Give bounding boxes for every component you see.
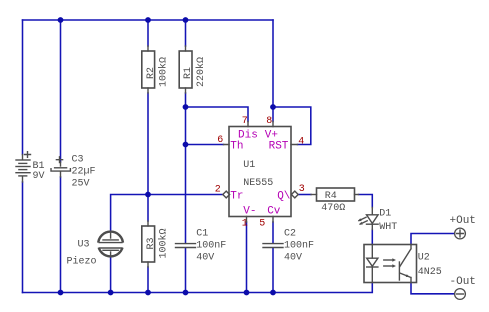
pin bubble Tr pin2 xyxy=(223,191,230,198)
junction dot V+ pin8 xyxy=(270,104,276,110)
svg-text:-Out: -Out xyxy=(450,276,476,288)
wire R2 bottom to Tr node xyxy=(147,93,149,195)
wire R1 column top xyxy=(185,20,187,46)
svg-text:100kΩ: 100kΩ xyxy=(158,57,170,87)
svg-text:4N25: 4N25 xyxy=(418,267,442,278)
svg-text:U1: U1 xyxy=(243,160,255,171)
svg-text:9V: 9V xyxy=(33,171,45,182)
wire C3 column bottom xyxy=(60,177,62,293)
svg-text:25V: 25V xyxy=(72,179,90,190)
svg-text:100nF: 100nF xyxy=(284,241,314,252)
wire R2 column top xyxy=(147,20,149,46)
svg-text:NE555: NE555 xyxy=(243,178,273,189)
wire Q out to R4 xyxy=(299,194,312,196)
svg-text:RST: RST xyxy=(269,141,289,153)
svg-text:R2: R2 xyxy=(146,67,157,79)
wire R1 bottom to C1 xyxy=(185,93,187,243)
wire left rail upper (battery top) xyxy=(22,20,24,155)
wire Th net xyxy=(186,144,224,146)
wire C2 bottom lead xyxy=(272,249,274,293)
wire C1 bottom lead xyxy=(185,249,187,293)
svg-text:Tr: Tr xyxy=(230,191,243,203)
junction dot ground R3 xyxy=(145,290,151,296)
svg-text:40V: 40V xyxy=(284,253,302,264)
svg-text:7: 7 xyxy=(242,116,248,127)
svg-text:V-: V- xyxy=(243,205,256,217)
svg-text:Q\: Q\ xyxy=(277,191,290,203)
capacitor C1 xyxy=(176,244,196,248)
junction dot top rail C3 xyxy=(58,17,64,23)
svg-text:5: 5 xyxy=(259,219,265,230)
svg-text:4: 4 xyxy=(298,137,304,148)
resistor R2 xyxy=(142,46,155,93)
terminal +Out xyxy=(455,228,466,239)
svg-text:R3: R3 xyxy=(146,237,157,249)
svg-text:8: 8 xyxy=(266,116,272,127)
svg-text:D1: D1 xyxy=(379,209,391,220)
wire piezo bottom xyxy=(110,258,112,293)
resistor R3 xyxy=(142,221,155,267)
wire C3 column top xyxy=(60,20,62,162)
resistor R1 xyxy=(179,46,192,93)
wire R4 to D1 xyxy=(359,195,373,208)
wire pin5 Cv to C2 xyxy=(272,222,274,243)
svg-text:U2: U2 xyxy=(418,253,430,264)
junction dot Th / R1 xyxy=(183,142,189,148)
svg-text:C2: C2 xyxy=(284,229,296,240)
junction dot top rail R2 xyxy=(145,17,151,23)
svg-text:22µF: 22µF xyxy=(72,167,96,178)
svg-text:3: 3 xyxy=(299,184,305,195)
wire D1 cathode to opto xyxy=(371,230,373,245)
svg-text:2: 2 xyxy=(215,185,221,196)
piezo U3 xyxy=(97,232,125,257)
wire pin1 V- to ground xyxy=(246,222,248,293)
svg-text:R1: R1 xyxy=(183,67,194,79)
wire R3 top lead xyxy=(147,195,149,222)
junction dot ground C2 xyxy=(270,290,276,296)
svg-text:R4: R4 xyxy=(325,191,337,202)
wire top rail xyxy=(23,19,274,21)
wire opto collector to +Out xyxy=(411,234,454,245)
svg-text:470Ω: 470Ω xyxy=(321,203,345,214)
battery B1 xyxy=(16,152,31,182)
junction dot ground C3 xyxy=(58,290,64,296)
svg-text:100nF: 100nF xyxy=(196,241,226,252)
LED D1 xyxy=(358,208,378,230)
junction dot ground pin1 xyxy=(244,290,250,296)
svg-text:C3: C3 xyxy=(72,155,84,166)
wire Tr net xyxy=(111,195,223,231)
svg-text:U3: U3 xyxy=(78,240,90,251)
svg-text:40V: 40V xyxy=(196,253,214,264)
svg-text:Dis: Dis xyxy=(238,129,258,141)
wire Dis net xyxy=(186,107,249,122)
svg-text:6: 6 xyxy=(217,135,223,146)
svg-text:Piezo: Piezo xyxy=(67,256,97,268)
junction dot top rail R1 xyxy=(183,17,189,23)
svg-text:220kΩ: 220kΩ xyxy=(195,57,207,87)
svg-text:C1: C1 xyxy=(196,229,208,240)
junction dot ground piezo xyxy=(108,290,114,296)
junction dot Tr / R2 / R3 xyxy=(145,192,151,198)
wire opto emitter to -Out xyxy=(411,283,454,294)
svg-text:+Out: +Out xyxy=(450,215,476,227)
optocoupler U2 4N25 xyxy=(364,245,417,283)
wire R3 bottom lead xyxy=(147,267,149,293)
resistor R4 xyxy=(311,188,359,201)
junction dot Dis / R1 xyxy=(183,104,189,110)
capacitor C2 xyxy=(263,244,283,248)
svg-text:V+: V+ xyxy=(265,129,278,141)
svg-text:WHT: WHT xyxy=(379,222,397,233)
wire left rail lower (battery bottom) xyxy=(22,182,24,293)
svg-text:100kΩ: 100kΩ xyxy=(158,228,170,258)
junction dot ground C1 xyxy=(183,290,189,296)
svg-text:Cv: Cv xyxy=(267,205,281,217)
pin bubble Q pin3 xyxy=(291,191,298,198)
wire V+ column xyxy=(272,20,274,122)
wire RST net xyxy=(273,107,311,145)
wire bottom rail xyxy=(23,283,373,293)
terminal -Out xyxy=(455,289,466,300)
op-amp U1 NE555 box xyxy=(224,122,298,223)
svg-text:Th: Th xyxy=(230,141,243,153)
svg-text:1: 1 xyxy=(242,219,248,230)
capacitor C3 xyxy=(51,157,70,177)
